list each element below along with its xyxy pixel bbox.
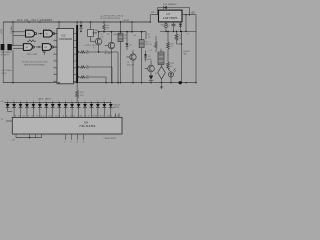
svg-text:4 5 6 7 8 9 10 11 13 14 15 16: 4 5 6 7 8 9 10 11 13 14 15 16 17 18 19 2… — [14, 116, 120, 118]
svg-text:(RED): (RED) — [113, 107, 119, 109]
svg-text:+12V: +12V — [122, 20, 130, 22]
svg-text:470: 470 — [80, 95, 83, 97]
svg-text:12V: 12V — [151, 12, 155, 14]
svg-text:D1: D1 — [77, 30, 79, 32]
svg-text:C7: C7 — [187, 34, 189, 36]
svg-text:2: 2 — [64, 142, 65, 144]
svg-text:C1 100u: C1 100u — [11, 25, 13, 34]
svg-text:= PIN 5 OF IC2: = PIN 5 OF IC2 — [84, 45, 99, 47]
svg-text:IC4: IC4 — [84, 121, 89, 124]
svg-text:LM7805: LM7805 — [163, 18, 179, 20]
svg-text:R3 2.2M: R3 2.2M — [27, 54, 38, 56]
svg-text:LED1 - LED17: LED1 - LED17 — [38, 99, 52, 101]
svg-text:22: 22 — [82, 142, 84, 144]
svg-text:D4: D4 — [134, 35, 136, 37]
svg-text:* SEE TEXT: * SEE TEXT — [103, 138, 117, 140]
svg-text:OF IC2, PIN 24 OF IC4: OF IC2, PIN 24 OF IC4 — [100, 18, 121, 20]
svg-text:D3: D3 — [107, 34, 109, 36]
svg-text:(SEE TEXT FOR DETAILS): (SEE TEXT FOR DETAILS) — [24, 63, 45, 66]
svg-text:BC148: BC148 — [105, 53, 112, 55]
svg-text:3: 3 — [70, 142, 71, 144]
svg-text:R17: R17 — [80, 92, 83, 94]
svg-text:D5: D5 — [148, 56, 150, 58]
svg-text:CD4026: CD4026 — [59, 38, 73, 41]
svg-text:0.1u: 0.1u — [101, 37, 104, 39]
svg-text:C5: C5 — [128, 32, 130, 34]
svg-text:74LS154: 74LS154 — [79, 125, 96, 128]
svg-text:24: 24 — [1, 119, 3, 121]
svg-text:D6 1N4007: D6 1N4007 — [164, 4, 178, 6]
svg-text:D4: D4 — [150, 44, 152, 46]
svg-text:10u: 10u — [148, 36, 151, 38]
svg-text:BC148: BC148 — [127, 65, 134, 67]
svg-text:R1=R2=4.7M, C2=C3=0.1u CER: R1=R2=4.7M, C2=C3=0.1u CER — [22, 62, 48, 64]
svg-text:+12V: +12V — [1, 28, 3, 34]
svg-text:T1: T1 — [93, 48, 95, 50]
svg-text:SUPPLY: SUPPLY — [1, 55, 11, 57]
svg-text:L1: L1 — [150, 50, 152, 52]
svg-text:BC558: BC558 — [144, 59, 151, 61]
svg-text:21: 21 — [76, 142, 78, 144]
svg-text:IC1: N1 - N4 = CD4093: IC1: N1 - N4 = CD4093 — [17, 20, 53, 22]
svg-text:1N4007: 1N4007 — [113, 34, 121, 36]
svg-text:D2: D2 — [129, 45, 131, 47]
svg-text:+5V: +5V — [191, 12, 196, 14]
